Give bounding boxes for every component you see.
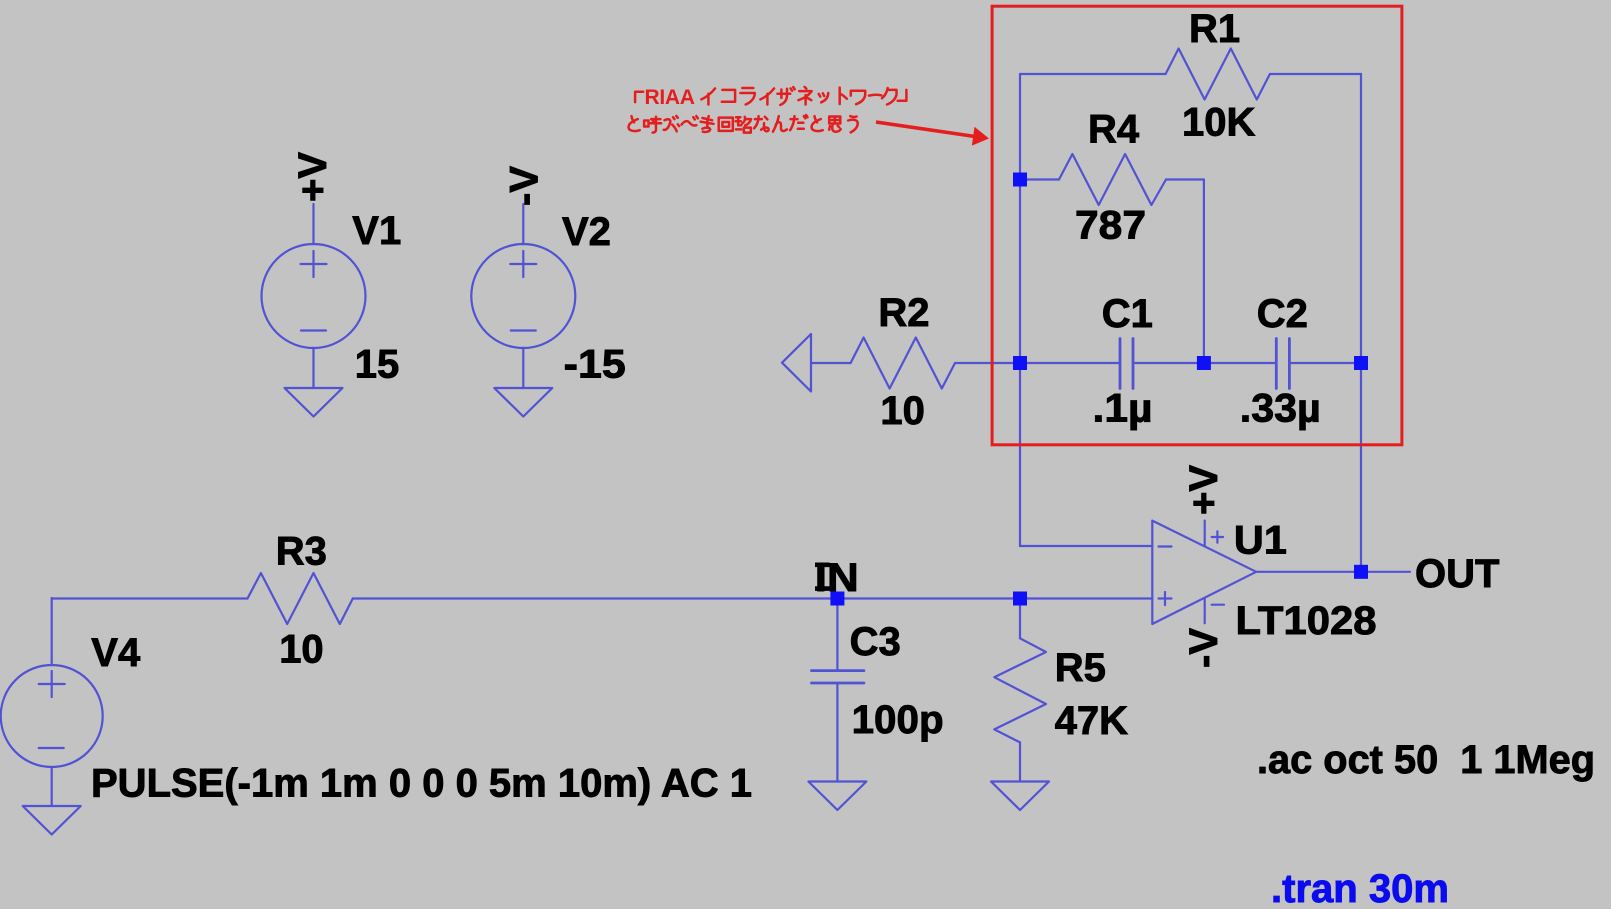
svg-text:R5: R5 [1055,646,1106,690]
resistor R4 [1059,154,1166,205]
wire R3 to opamp +in (through IN and R5 nodes) [353,597,1153,599]
wire R4 right lead [1166,178,1204,180]
svg-text:47K: 47K [1055,699,1128,743]
wire IN node to C3 [836,599,838,671]
svg-text:V1: V1 [352,209,401,253]
node IN [830,173,1368,606]
svg-text:-V: -V [503,166,547,206]
svg-text:C3: C3 [850,620,901,664]
svg-text:787: 787 [1075,204,1146,248]
vertical wire R4 to C1/C2 node [1203,180,1205,364]
red annotation box [992,6,1402,445]
svg-text:.1µ: .1µ [1093,387,1153,431]
ground (C3) [808,782,866,811]
svg-text:-V: -V [1182,628,1226,668]
node C2 right [1354,356,1368,370]
svg-text:-15: -15 [564,343,626,387]
resistor R3 [248,573,353,624]
node OUT [1354,565,1368,579]
wire C3 to ground [836,683,838,782]
svg-text:100p: 100p [852,698,944,742]
wire R5 bottom to ground [1019,742,1021,781]
node R2/C1 [1013,356,1027,370]
svg-text:LT1028: LT1028 [1236,599,1377,643]
svg-text:.tran 30m: .tran 30m [1271,867,1449,909]
svg-text:10: 10 [880,389,925,433]
node C1/C2 [1197,356,1211,370]
right vertical rail [1360,74,1362,572]
capacitor C1 [1120,339,1133,389]
svg-text:+V: +V [291,152,335,202]
svg-text:R2: R2 [878,291,929,335]
svg-text:15: 15 [355,343,400,387]
wire R1 right lead [1270,73,1361,75]
svg-text:OUT: OUT [1415,552,1499,596]
svg-text:C1: C1 [1102,292,1153,336]
svg-text:10K: 10K [1182,101,1255,145]
red annotation text line 2 [629,115,858,133]
svg-text:.ac oct 50 1 1Meg: .ac oct 50 1 1Meg [1257,738,1595,782]
node R4 left [1013,173,1027,187]
resistor R5 [994,638,1046,742]
left-arrow net flag at R2 [782,334,811,392]
capacitor C2 [1276,339,1289,389]
node R5 top [1013,592,1027,606]
svg-text:RIAA: RIAA [645,86,695,109]
wire R1 left lead [1020,73,1166,75]
wire C2 to right rail [1289,362,1361,364]
svg-text:R3: R3 [276,530,327,574]
svg-text:PULSE(-1m 1m 0 0 0 5m 10m) AC: PULSE(-1m 1m 0 0 0 5m 10m) AC 1 [91,762,752,806]
red annotation text line 1 [635,87,906,105]
left vertical rail [1019,74,1021,546]
wire R5 top [1019,599,1021,639]
svg-text:R1: R1 [1189,7,1240,51]
svg-text:+V: +V [1182,465,1226,515]
svg-text:V2: V2 [562,210,611,254]
svg-text:.33µ: .33µ [1240,387,1321,431]
op-amp U1 [1152,521,1256,624]
svg-text:V4: V4 [91,631,141,675]
ground (V4) [23,806,81,835]
svg-text:R4: R4 [1088,108,1140,152]
wire R4 left lead [1020,178,1059,180]
wire C1 to C2 [1133,362,1276,364]
voltage source V1 [262,204,366,388]
wire R2 to C1 [955,362,1120,364]
resistor R1 [1166,49,1270,100]
wire opamp output to OUT [1256,571,1410,573]
wire flag to R2 [811,362,851,364]
capacitor C3 [812,671,864,683]
red annotation arrow [876,122,989,146]
ground (V2) [494,388,552,417]
svg-text:C2: C2 [1257,292,1308,336]
svg-text:10: 10 [279,628,324,672]
wire V4 to R3 [52,597,248,599]
wire opamp -in [1020,545,1152,547]
resistor R2 [851,338,955,389]
ground (R5) [991,782,1049,811]
svg-text:U1: U1 [1234,519,1287,563]
voltage source V2 [471,204,575,388]
voltage source V4 [1,598,103,806]
ground (V1) [285,388,343,417]
